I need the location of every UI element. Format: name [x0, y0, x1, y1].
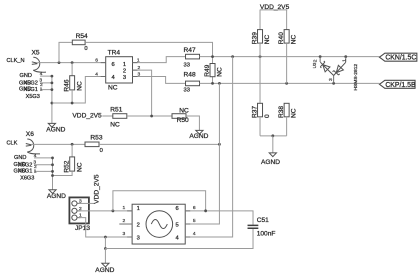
- wire JP13 pin3 to VDD: [79, 202, 94, 204]
- svg-text:NC: NC: [110, 122, 120, 129]
- svg-text:HSMS-2812: HSMS-2812: [353, 64, 359, 91]
- svg-text:5: 5: [176, 222, 179, 228]
- wire ground cross to TR4 pin4: [52, 77, 106, 104]
- wire R46 top: [71, 63, 73, 76]
- wire osc pin5 column up to CKP: [185, 83, 219, 224]
- wire VDD rail to R39: [259, 10, 261, 30]
- svg-text:X5G1: X5G1: [24, 87, 38, 93]
- wire X6 ground column: [52, 158, 54, 190]
- svg-text:X5G3: X5G3: [26, 94, 40, 100]
- svg-text:6: 6: [176, 206, 179, 212]
- resistor R50: [172, 108, 189, 124]
- ground AGND under R37 R38: [261, 153, 280, 166]
- svg-text:X6G2: X6G2: [18, 162, 32, 168]
- wire junction down to AGND: [104, 249, 106, 264]
- wire VDD loop (osc pin6 to pin1): [113, 191, 206, 211]
- X6 pin numbers 4 3 2 1: [33, 153, 37, 175]
- wire VDD rail to R40: [286, 10, 288, 30]
- wire CKP row: [200, 82, 380, 84]
- node junction CLK at R52: [71, 143, 74, 146]
- svg-text:NC: NC: [264, 34, 271, 44]
- wire bottom rail to C51: [105, 229, 253, 249]
- svg-text:X6G1: X6G1: [18, 169, 32, 175]
- wire R54 branch up: [59, 42, 72, 62]
- pin stubs TR4: [101, 63, 138, 77]
- svg-text:0: 0: [100, 148, 103, 154]
- wire TR4 pin2 down to R51 row: [133, 70, 152, 116]
- svg-text:NC: NC: [77, 81, 84, 91]
- svg-text:1: 1: [123, 205, 126, 211]
- node junction on CLK_N at R54 branch: [58, 61, 61, 64]
- wire CKN row: [200, 56, 380, 58]
- pin stubs oscillator: [127, 211, 190, 237]
- svg-text:6: 6: [193, 205, 196, 211]
- node junctions CKN row: [211, 55, 347, 58]
- svg-text:6: 6: [95, 58, 98, 64]
- wire to AGND: [272, 136, 274, 153]
- node junctions CKP row: [211, 82, 335, 85]
- svg-text:0: 0: [264, 114, 271, 118]
- wire JP13 pin1 down to osc pin3 row: [79, 218, 133, 237]
- resistor R47: [184, 47, 200, 69]
- wire R52 top: [71, 144, 73, 157]
- node junction TR4 pin2 column: [150, 115, 153, 118]
- wire osc pin4 column up to CKN: [185, 57, 232, 237]
- wire R51 to R50: [127, 115, 172, 117]
- svg-text:3: 3: [123, 75, 126, 81]
- svg-text:R40: R40: [278, 32, 285, 44]
- svg-text:4: 4: [193, 231, 196, 237]
- svg-text:R51: R51: [110, 106, 122, 113]
- wire osc pin6 row to C51: [185, 211, 253, 225]
- wire CKN to R37: [259, 57, 261, 104]
- oscillator U (box with sine): [132, 204, 185, 244]
- svg-text:R53: R53: [90, 134, 102, 141]
- wire JP13 pin2 to oscillator pin1: [79, 210, 133, 212]
- svg-text:X5G2: X5G2: [24, 81, 38, 87]
- X6 shield pin wires: [34, 158, 53, 172]
- wire X5 ground column: [51, 76, 53, 123]
- jumper JP13: [69, 197, 90, 232]
- node junction VDD stub: [112, 209, 115, 212]
- resistor R38: [278, 103, 297, 118]
- resistor R54: [72, 33, 88, 52]
- resistor R40: [278, 30, 297, 45]
- net flag CKP/1.5B: [379, 80, 416, 89]
- svg-text:33: 33: [184, 87, 190, 93]
- svg-text:NC: NC: [179, 108, 189, 115]
- resistor R46: [63, 76, 83, 92]
- X5 pin numbers 4 3 2 1: [39, 71, 43, 93]
- svg-text:2: 2: [312, 59, 318, 62]
- resistor R53: [85, 134, 103, 154]
- svg-text:4: 4: [34, 153, 37, 159]
- power VDD_2V5 rail (top right): [260, 4, 290, 11]
- wire R54 to CKN column: [85, 42, 212, 56]
- svg-text:CLK_N: CLK_N: [7, 58, 25, 64]
- svg-text:3: 3: [123, 231, 126, 237]
- resistor R37: [251, 103, 270, 118]
- svg-text:CLK: CLK: [7, 140, 18, 146]
- connector X5: [32, 49, 47, 72]
- svg-text:X6: X6: [26, 131, 34, 138]
- wire CLK row to R53: [31, 143, 85, 145]
- ground AGND under R50: [189, 130, 208, 140]
- svg-text:NC: NC: [290, 108, 297, 118]
- svg-text:AGND: AGND: [189, 133, 208, 140]
- svg-text:R48: R48: [184, 72, 196, 79]
- svg-text:1: 1: [123, 62, 126, 68]
- wire R38 bottom: [286, 117, 288, 136]
- svg-text:AGND: AGND: [95, 267, 114, 274]
- node junctions X6 ground column: [51, 157, 54, 177]
- svg-text:2: 2: [123, 218, 126, 224]
- wire pin3 junction down: [104, 237, 106, 249]
- svg-text:VDD_2V5: VDD_2V5: [72, 113, 102, 120]
- svg-text:AGND: AGND: [46, 127, 65, 134]
- wire bottom rail R37 R38: [260, 135, 287, 137]
- node junction bottom rail: [104, 247, 107, 250]
- node junction on CLK_N at R46: [71, 61, 74, 64]
- svg-text:100nF: 100nF: [257, 231, 276, 238]
- svg-text:R38: R38: [278, 106, 285, 118]
- node junction osc pin6: [204, 209, 207, 212]
- svg-text:JP13: JP13: [75, 225, 90, 232]
- svg-text:GND: GND: [14, 155, 26, 161]
- svg-text:TR4: TR4: [108, 50, 121, 57]
- svg-text:33: 33: [184, 62, 190, 68]
- resistor R48: [184, 72, 200, 94]
- wire R52 bottom to ground column: [53, 171, 73, 175]
- capacitor C51: [248, 217, 276, 237]
- resistor R49: [204, 57, 223, 84]
- wire TR4 pin3 to R48: [133, 77, 186, 84]
- svg-text:R49: R49: [204, 64, 211, 76]
- node junction R53 column: [218, 143, 221, 146]
- svg-text:R52: R52: [63, 160, 70, 172]
- svg-text:1: 1: [341, 59, 347, 62]
- svg-text:3: 3: [328, 78, 334, 81]
- ground AGND under X5: [46, 123, 65, 133]
- wire CLK_N row: [37, 62, 105, 64]
- svg-text:GND: GND: [20, 73, 32, 79]
- svg-text:NC: NC: [290, 34, 297, 44]
- wire R50 to AGND: [186, 116, 199, 130]
- wire R39 to CKN: [259, 43, 261, 57]
- svg-text:NC: NC: [108, 85, 118, 92]
- svg-text:NC: NC: [77, 162, 84, 172]
- net labels GND / X6G1 X6G2 X6G3: [14, 155, 35, 182]
- svg-text:1: 1: [40, 87, 43, 93]
- node junction R46 bottom: [71, 102, 74, 105]
- svg-text:R54: R54: [76, 33, 88, 40]
- svg-text:AGND: AGND: [261, 159, 280, 166]
- svg-text:1: 1: [137, 206, 140, 212]
- wire R53 to oscillator pin5 column: [99, 143, 219, 145]
- wire osc pin2 stub: [119, 223, 132, 225]
- net flag CKN/1.5C: [379, 53, 416, 62]
- connector X6: [26, 131, 40, 154]
- node junction osc pin3 row: [104, 236, 107, 239]
- ground AGND bottom: [95, 263, 114, 274]
- svg-text:NC: NC: [216, 67, 223, 77]
- node junctions on X5 ground column: [51, 75, 54, 105]
- wire R37 bottom: [259, 117, 261, 136]
- resistor R39: [251, 30, 270, 45]
- svg-text:R47: R47: [184, 47, 196, 54]
- wire VDD to R51: [102, 115, 113, 117]
- svg-text:0: 0: [84, 46, 87, 52]
- ground AGND under X6: [47, 190, 66, 200]
- svg-text:R50: R50: [177, 117, 189, 124]
- svg-text:VDD_2V5: VDD_2V5: [93, 174, 100, 204]
- svg-text:CKP/1.5B: CKP/1.5B: [385, 82, 416, 89]
- X5 shield pin wires: [40, 76, 52, 90]
- svg-text:3: 3: [137, 236, 140, 242]
- resistor R51: [110, 106, 127, 128]
- svg-text:AGND: AGND: [47, 193, 66, 200]
- svg-text:1: 1: [34, 168, 37, 174]
- svg-text:6: 6: [112, 62, 115, 68]
- svg-text:R37: R37: [251, 106, 258, 118]
- resistor R52: [63, 157, 83, 173]
- svg-text:CKN/1.5C: CKN/1.5C: [385, 55, 416, 62]
- svg-text:X6G3: X6G3: [20, 176, 34, 182]
- svg-text:R39: R39: [251, 32, 258, 44]
- node junction bottom rail: [271, 134, 274, 137]
- wire TR4 pin1 to R47: [133, 57, 186, 63]
- wire R46 bottom: [71, 90, 73, 103]
- svg-text:X5: X5: [32, 49, 40, 56]
- svg-text:C51: C51: [257, 217, 269, 224]
- svg-text:5: 5: [193, 218, 196, 224]
- svg-text:2: 2: [123, 68, 126, 74]
- net labels GND / X5G1 X5G2 X5G3: [19, 73, 40, 100]
- svg-text:R46: R46: [63, 79, 70, 91]
- transformer TR4: [106, 50, 133, 92]
- svg-text:4: 4: [95, 72, 98, 78]
- diode U3 HSMS-2812: [312, 57, 359, 91]
- svg-text:2: 2: [137, 222, 140, 228]
- svg-text:4: 4: [40, 71, 43, 77]
- wire R40 to CKP: [286, 43, 288, 83]
